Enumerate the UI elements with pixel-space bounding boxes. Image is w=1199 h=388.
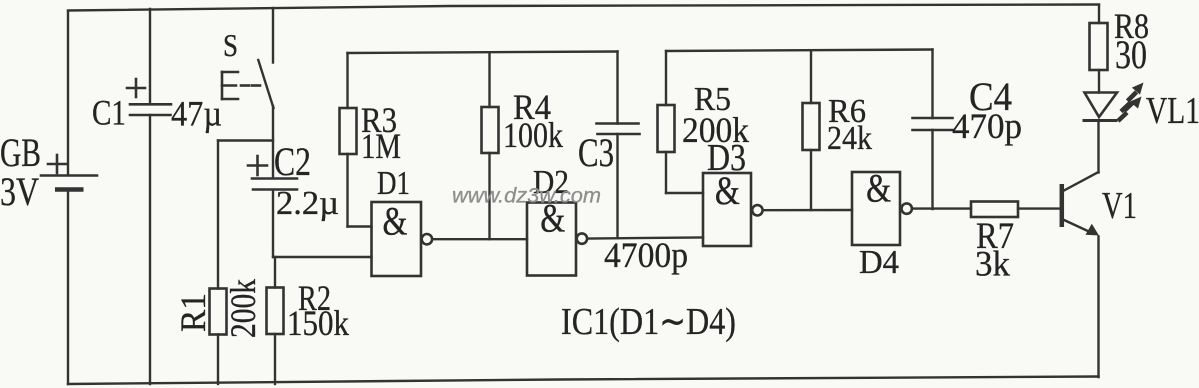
switch S xyxy=(222,8,274,178)
wire R3 to D1 input1 xyxy=(348,225,372,227)
resistor R8 30 xyxy=(1090,5,1150,93)
svg-text:2.2µ: 2.2µ xyxy=(276,185,339,222)
svg-text:100k: 100k xyxy=(503,115,563,155)
svg-text:47µ: 47µ xyxy=(171,94,222,134)
wire node C2-R2 to D1 input xyxy=(273,256,372,258)
resistor R7 3k xyxy=(971,202,1060,284)
svg-text:C3: C3 xyxy=(578,130,614,175)
capacitor C3 xyxy=(578,52,640,239)
wire left border upper xyxy=(67,11,69,175)
svg-text:470p: 470p xyxy=(952,106,1022,146)
resistor R4 100k xyxy=(482,53,564,240)
nand gate D3 xyxy=(703,137,763,246)
nand gate D4 xyxy=(852,166,912,282)
transistor V1 xyxy=(1062,172,1137,236)
resistor R5 200k xyxy=(658,51,750,193)
wire left lower xyxy=(67,191,69,384)
svg-text:D1: D1 xyxy=(377,165,410,202)
svg-text:D3: D3 xyxy=(707,137,746,179)
svg-text:V1: V1 xyxy=(1102,185,1137,227)
svg-text:IC1(D1∼D4): IC1(D1∼D4) xyxy=(561,301,736,343)
svg-text:30: 30 xyxy=(1115,32,1147,77)
wire D3 out to D4 xyxy=(763,209,852,212)
svg-text:3V: 3V xyxy=(0,169,39,214)
wire top rail xyxy=(68,5,1099,11)
capacitor C2 xyxy=(248,139,339,257)
capacitor C1 xyxy=(92,9,222,384)
resistor R6 24k xyxy=(803,50,873,210)
nand gate D1 xyxy=(372,165,433,276)
wire D4 out to R7 xyxy=(912,207,971,209)
resistor R1 200k xyxy=(173,141,263,385)
svg-text:3k: 3k xyxy=(975,244,1010,284)
wire emitter to bottom rail xyxy=(1097,237,1099,378)
battery GB 3V xyxy=(0,130,97,214)
nand gate D2 xyxy=(527,164,587,276)
svg-text:C2: C2 xyxy=(274,139,311,184)
wire D1 out to D2 xyxy=(432,238,527,240)
svg-text:C1: C1 xyxy=(92,93,126,133)
svg-text:R1: R1 xyxy=(173,293,213,332)
wire R5 to D3 input1 xyxy=(666,192,703,194)
svg-text:200k: 200k xyxy=(223,279,263,338)
svg-text:24k: 24k xyxy=(827,120,872,157)
wire bottom rail xyxy=(68,377,1099,385)
resistor R2 150k xyxy=(267,257,350,384)
capacitor C4 470p xyxy=(913,50,1023,210)
svg-text:S: S xyxy=(223,27,238,63)
wire oscillator2 top rail xyxy=(666,50,933,52)
svg-text:VL1: VL1 xyxy=(1146,90,1199,132)
svg-text:&: & xyxy=(383,199,408,244)
wire collector to LED xyxy=(1097,121,1099,173)
svg-text:&: & xyxy=(866,166,891,211)
resistor R3 1M xyxy=(340,53,402,227)
svg-text:www.dz3w.com: www.dz3w.com xyxy=(452,185,601,208)
svg-text:D4: D4 xyxy=(859,244,899,281)
svg-text:150k: 150k xyxy=(287,303,349,343)
wire D2 out to D3 input2 xyxy=(587,237,703,238)
wire oscillator1 top rail xyxy=(348,52,618,54)
svg-text:1M: 1M xyxy=(361,126,401,166)
wire R1 tap xyxy=(218,139,273,141)
svg-text:4700p: 4700p xyxy=(604,235,688,275)
led VL1 xyxy=(1083,83,1199,133)
